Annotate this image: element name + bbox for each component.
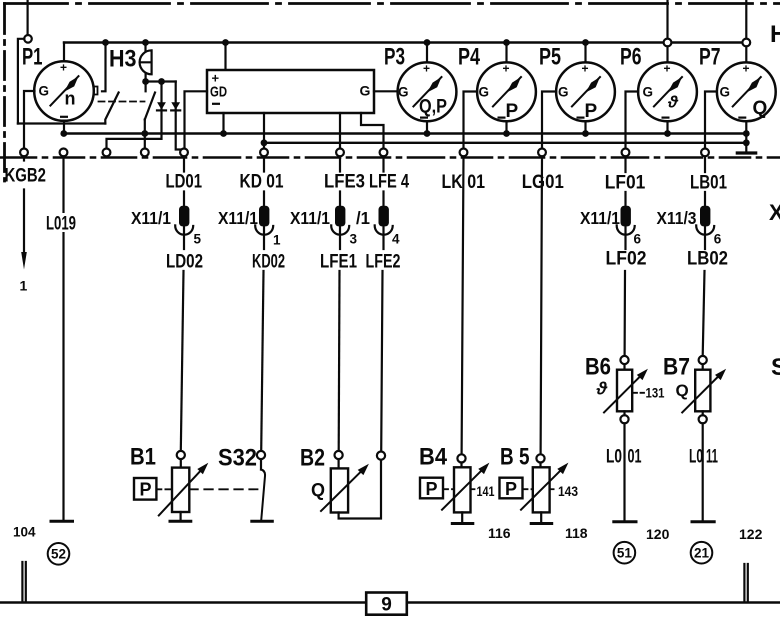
svg-text:B7: B7 <box>663 354 690 381</box>
wire B5 bottom to ground <box>540 512 542 521</box>
wire P4 G hook to LK01 <box>464 92 478 149</box>
terminal LG01 <box>538 149 546 157</box>
svg-text:+: + <box>502 61 509 75</box>
node circle B6 bottom <box>620 415 628 423</box>
svg-text:LB02: LB02 <box>687 248 728 270</box>
svg-text:P5: P5 <box>539 44 561 71</box>
GAUGE P3 <box>426 43 428 63</box>
wire B1 bottom to ground <box>180 512 182 520</box>
svg-text:+: + <box>60 61 67 75</box>
dashed mechanical link P1 to switches <box>99 101 145 103</box>
svg-text:11: 11 <box>706 446 718 468</box>
ground bar B5 <box>531 522 552 525</box>
svg-text:X: X <box>769 200 780 225</box>
wire external vertical into frame top left <box>27 0 29 35</box>
svg-text:Q: Q <box>311 480 325 500</box>
wire bracket from top-left node down left side of P1 <box>18 39 24 124</box>
terminal L019 <box>60 149 68 157</box>
dashed link B1 to S32 <box>189 488 257 490</box>
resistor body B7 <box>695 370 710 412</box>
svg-text:G: G <box>39 84 50 99</box>
svg-text:LF01: LF01 <box>605 172 646 194</box>
svg-text:Q,P: Q,P <box>419 97 447 118</box>
svg-text:GD: GD <box>210 84 227 101</box>
terminal LB01 <box>701 149 709 157</box>
svg-text:H: H <box>770 21 780 48</box>
node open circle top-left <box>24 35 32 43</box>
svg-text:ϑ: ϑ <box>596 379 608 399</box>
ground bar B4 <box>452 522 473 525</box>
svg-text:141: 141 <box>477 483 495 499</box>
wire switch2 bottom to bus1 and terminal <box>144 120 146 149</box>
needle of P1 <box>50 76 78 105</box>
terminal KGB2 <box>20 149 28 157</box>
wire LD02 down to B1 <box>181 271 184 451</box>
wire GD input from LD01 terminal <box>185 91 208 148</box>
pin 6 of X11/1 <box>621 206 631 227</box>
node circle B2 left <box>335 451 343 459</box>
svg-text:L0: L0 <box>606 446 622 468</box>
svg-text:B1: B1 <box>130 444 156 471</box>
wire LFE3 to pin <box>339 156 341 206</box>
wire LG01 down to B5 <box>541 156 542 454</box>
svg-text:G: G <box>558 84 569 99</box>
svg-text:LG01: LG01 <box>522 171 564 193</box>
wire P1 plus stub from bus <box>63 43 65 62</box>
svg-text:LFE2: LFE2 <box>366 251 401 273</box>
wire LF01 to pin <box>624 156 626 206</box>
WIRE L019 down to ground terminal 52 <box>62 156 64 519</box>
wire switch2 fixed contact <box>145 82 147 92</box>
P box of B5 <box>500 478 523 499</box>
wire control unit G output to P3 <box>374 90 398 92</box>
svg-text:B6: B6 <box>585 354 611 381</box>
contact bar S32 <box>252 520 272 523</box>
svg-text:X11/1: X11/1 <box>290 208 330 228</box>
gauge P1 body <box>34 61 94 121</box>
terminal tick right side of P1 <box>94 87 98 95</box>
terminal LD01 <box>180 149 188 157</box>
resistor body B6 <box>617 370 632 412</box>
arrow through B2 <box>321 471 362 511</box>
wire LFE2 down to B2 right <box>381 271 382 451</box>
wire control unit LFE4 output <box>361 113 384 148</box>
svg-text:S32: S32 <box>218 445 257 472</box>
svg-text:L0: L0 <box>689 446 703 468</box>
svg-text:3: 3 <box>350 232 358 247</box>
node open circle P6 top feed <box>664 39 672 47</box>
wire LB02 down to B7 <box>703 271 705 356</box>
svg-text:KD 01: KD 01 <box>240 171 284 193</box>
lever S32 <box>261 470 265 520</box>
pin 1 of X11/1 <box>259 206 269 227</box>
arrow through B4 <box>442 470 482 510</box>
node circle B1 top <box>177 451 185 459</box>
wire control unit LFE3 output <box>339 113 341 148</box>
resistor body B1 <box>172 468 189 512</box>
wire external vertical to P6 top <box>666 0 668 39</box>
svg-text:L019: L019 <box>46 213 76 235</box>
svg-text:131: 131 <box>646 386 665 401</box>
svg-text:S: S <box>771 354 780 381</box>
svg-text:ϑ: ϑ <box>667 93 679 112</box>
GAUGE P6 <box>666 46 668 62</box>
junction dots on top bus <box>102 39 109 46</box>
wire control unit KD output to terminal <box>263 113 265 148</box>
wire P1 G terminal to terminal KGB2 <box>24 91 35 149</box>
svg-text:P7: P7 <box>699 44 721 71</box>
svg-text:122: 122 <box>739 526 763 542</box>
svg-text:Q: Q <box>676 381 689 400</box>
svg-text:B2: B2 <box>300 445 325 472</box>
svg-text:KD02: KD02 <box>252 251 285 273</box>
junction dots on buses <box>60 130 67 137</box>
switch1 lever <box>105 93 118 124</box>
svg-text:X11/3: X11/3 <box>657 208 697 228</box>
svg-text:9: 9 <box>381 595 392 616</box>
wire LF02 down to B6 <box>623 271 626 356</box>
svg-text:120: 120 <box>646 526 670 542</box>
svg-text:104: 104 <box>13 525 36 540</box>
wire LK01 down to B4 <box>462 156 464 454</box>
svg-text:G: G <box>479 84 490 99</box>
BUS2 ground link bus <box>264 142 746 144</box>
dashed stub B4 value <box>471 488 477 490</box>
terminal bar L001 <box>614 520 636 523</box>
wire external vertical to P7 top <box>745 0 747 39</box>
svg-text:X11/1: X11/1 <box>131 208 171 228</box>
svg-text:+: + <box>212 71 220 86</box>
svg-text:n: n <box>65 89 76 109</box>
wire H3 to diodes horizontal <box>146 80 176 82</box>
wire control unit minus to bus1 <box>222 113 224 134</box>
lamp H3 body <box>140 50 152 74</box>
svg-text:6: 6 <box>634 232 642 247</box>
ground rail wire left <box>0 601 366 603</box>
ground bar at P7 <box>737 151 755 154</box>
double-line tap right <box>744 564 747 602</box>
svg-text:X11/1: X11/1 <box>580 208 620 228</box>
wire horizontal link to switch S contact <box>18 122 105 124</box>
svg-text:KGB2: KGB2 <box>5 165 47 187</box>
terminal LF01 <box>622 149 630 157</box>
P box of B4 <box>420 478 443 499</box>
svg-text:P6: P6 <box>620 44 642 71</box>
switch2 lever <box>145 93 155 120</box>
svg-text:LF02: LF02 <box>606 248 647 270</box>
wire P7 G hook to LB01 <box>705 92 717 149</box>
node circle B7 top <box>699 356 707 364</box>
wire B4 bottom to ground <box>461 512 463 521</box>
resistor body B2 <box>331 468 348 512</box>
pin 3 of X11/1 <box>335 206 345 227</box>
svg-text:B 5: B 5 <box>500 444 530 471</box>
svg-text:P1: P1 <box>22 44 43 71</box>
wire H3 bottom stub <box>145 74 147 81</box>
wire LD01 to pin <box>183 156 185 206</box>
svg-text:6: 6 <box>714 232 722 247</box>
wire KD01 to pin <box>263 156 265 206</box>
node open circle P7 top feed <box>742 39 750 47</box>
svg-text:Q: Q <box>753 98 768 119</box>
node circle B4 top <box>457 454 465 462</box>
svg-text:G: G <box>720 84 731 99</box>
junction dot diode1 top <box>158 78 165 85</box>
junction dot H3 bottom <box>142 78 149 85</box>
svg-text:116: 116 <box>488 525 511 541</box>
terminal diode1 spare <box>103 149 111 157</box>
wire top supply bus <box>64 41 746 43</box>
wire control unit plus from bus <box>224 43 226 71</box>
node circle S32 top <box>257 451 265 459</box>
frame left dash-dot border <box>3 4 6 182</box>
dashed link B4 P-box <box>443 488 454 490</box>
svg-text:H3: H3 <box>109 46 137 73</box>
wire diode2 vertical <box>176 82 181 150</box>
svg-text:+: + <box>423 61 430 75</box>
svg-text:P: P <box>506 101 519 122</box>
svg-text:LB01: LB01 <box>690 172 727 194</box>
wire B6 down to ground terminal 51 <box>623 423 625 520</box>
terminal bar L019 <box>51 520 73 523</box>
svg-text:/1: /1 <box>356 208 370 228</box>
P box of B1 <box>134 478 156 500</box>
node circle B5 top <box>536 454 544 462</box>
pin 6 of X11/3 <box>700 206 710 227</box>
wire LB01 to pin <box>704 156 706 206</box>
diode V2 symbol <box>171 102 180 109</box>
svg-text:P: P <box>426 479 438 499</box>
ground rail label box 9 <box>366 593 407 615</box>
svg-text:P: P <box>505 479 517 499</box>
GAUGE P7 <box>745 46 747 62</box>
dashed link B1 P-box <box>156 488 172 490</box>
svg-text:P4: P4 <box>458 44 480 71</box>
terminal LFE3 <box>336 149 344 157</box>
svg-text:LD02: LD02 <box>166 251 203 273</box>
wire diode1 vertical <box>107 82 162 149</box>
svg-text:LFE 4: LFE 4 <box>369 171 409 193</box>
terminal LFE4 <box>380 149 388 157</box>
svg-text:51: 51 <box>617 545 633 560</box>
svg-text:52: 52 <box>51 547 66 562</box>
resistor body B4 <box>454 467 471 512</box>
arrow through B7 <box>682 376 718 412</box>
wire LFE1 down to B2 <box>338 271 341 451</box>
frame top dash-dot border <box>5 2 780 5</box>
wire P6 G hook to LF01 <box>626 92 639 149</box>
terminal KD01 <box>260 149 268 157</box>
terminal LK01 <box>460 149 468 157</box>
node circle B7 bottom <box>699 415 707 423</box>
GAUGE P5 <box>584 43 586 63</box>
dashed stub B6 value <box>633 392 645 394</box>
svg-text:5: 5 <box>194 232 202 247</box>
circled terminal 52 <box>48 543 70 565</box>
wire KD02 down to S32 <box>261 271 263 451</box>
terminal bar L011 <box>692 520 714 523</box>
node circle B2 right <box>377 452 385 460</box>
svg-text:LD01: LD01 <box>166 171 203 193</box>
pin 5 of X11/1 <box>179 206 189 227</box>
svg-text:+: + <box>742 61 749 75</box>
ground bar B1 <box>170 520 191 523</box>
svg-text:1: 1 <box>20 278 28 294</box>
svg-text:01: 01 <box>628 446 642 468</box>
pin 4 of X11/1 <box>379 206 389 227</box>
control unit body <box>207 70 374 113</box>
svg-text:LFE3: LFE3 <box>324 171 365 193</box>
svg-text:LK 01: LK 01 <box>442 171 486 193</box>
svg-text:B4: B4 <box>419 444 448 471</box>
svg-text:143: 143 <box>558 483 578 499</box>
wire P5 G hook to LG01 <box>542 92 556 149</box>
svg-text:G: G <box>360 83 371 99</box>
circled terminal 21 <box>691 542 713 564</box>
wire from bus to switch1 fixed contact <box>102 43 106 92</box>
arrowhead KGB2 <box>21 252 27 270</box>
arrow through B6 <box>604 376 640 412</box>
diode V1 symbol <box>157 102 166 109</box>
svg-text:+: + <box>581 61 588 75</box>
terminal switch2 spare <box>141 149 149 157</box>
wire B7 down to ground terminal 21 <box>702 423 704 520</box>
arrow through B1 <box>159 470 201 515</box>
dashed link B5 P-box <box>523 488 533 490</box>
dashed stub B5 value <box>550 488 556 490</box>
svg-text:4: 4 <box>392 232 400 247</box>
svg-text:LFE1: LFE1 <box>320 251 357 273</box>
net label L019 <box>44 213 78 235</box>
GAUGE P4 <box>505 43 507 63</box>
WIRE KGB2 with arrow <box>23 156 25 160</box>
svg-text:X11/1: X11/1 <box>218 208 258 228</box>
wire B2 bottom U-link <box>339 460 381 519</box>
double-line tap left <box>22 562 25 602</box>
svg-text:118: 118 <box>565 525 588 541</box>
svg-text:1: 1 <box>273 233 281 248</box>
BUS1 minus bus <box>64 132 747 134</box>
svg-text:G: G <box>643 84 654 99</box>
wire P1 minus stub to bus1 <box>63 121 65 134</box>
wire H3 top stub <box>144 43 146 51</box>
wire P7 minus down to ground <box>745 121 747 153</box>
svg-text:P: P <box>585 101 598 122</box>
svg-text:21: 21 <box>694 545 710 560</box>
resistor body B5 <box>533 467 550 512</box>
node circle B6 top <box>620 356 628 364</box>
circled terminal 51 <box>614 542 636 564</box>
arrow through B5 <box>521 470 561 510</box>
ground rail wire right <box>407 601 780 603</box>
wire LFE4 to pin <box>382 156 384 206</box>
svg-text:+: + <box>663 61 670 75</box>
bottom dash-dot border of instrument cluster <box>0 156 780 159</box>
svg-text:G: G <box>398 84 409 99</box>
svg-text:P: P <box>140 480 152 500</box>
svg-text:P3: P3 <box>384 44 405 71</box>
